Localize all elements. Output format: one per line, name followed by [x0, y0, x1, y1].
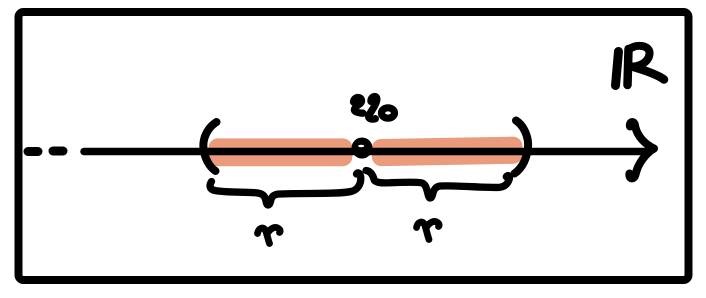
wire: number line axis	[84, 148, 649, 156]
label r (left radius)	[258, 228, 270, 243]
label x0 : x glyph	[354, 98, 364, 114]
highlight band left of x0	[209, 138, 353, 166]
label IR : I stroke	[616, 52, 619, 86]
label IR : R leg	[632, 67, 664, 80]
highlight band right of x0	[372, 136, 523, 166]
label r (right radius)	[417, 222, 430, 239]
right underbrace	[366, 171, 509, 199]
node x0 point	[352, 138, 373, 159]
open parenthesis ( left interval end	[203, 122, 216, 171]
arrowhead of axis	[629, 122, 654, 178]
label x0 : subscript o	[382, 108, 395, 118]
left underbrace	[210, 173, 361, 205]
wire: left dash 2 (line continues)	[53, 147, 63, 156]
label IR : R stem	[628, 49, 629, 85]
label IR : R bowl	[629, 46, 650, 67]
wire: left dash 1 (line continues)	[28, 147, 38, 156]
close parenthesis ) right interval end	[515, 121, 529, 174]
